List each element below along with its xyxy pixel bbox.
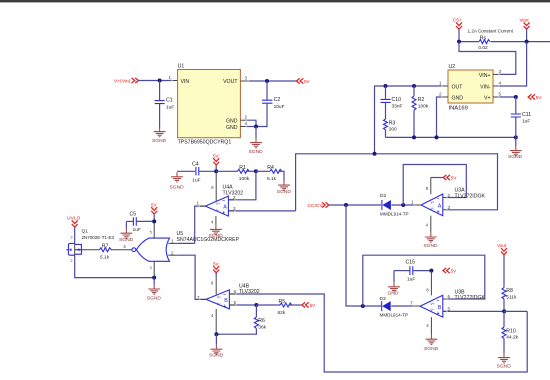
resistor R3 bbox=[384, 119, 398, 137]
svg-text:C4: C4 bbox=[192, 162, 199, 168]
resistor R4 bbox=[256, 165, 284, 182]
Q1 source wire to ground net bbox=[75, 256, 155, 278]
svg-text:1: 1 bbox=[169, 75, 172, 80]
node R1/R4 bbox=[254, 169, 258, 173]
svg-text:V+: V+ bbox=[484, 95, 491, 101]
svg-text:−: − bbox=[437, 196, 440, 202]
pin 1 output wire down to NOR bbox=[195, 206, 206, 243]
svg-text:SGND: SGND bbox=[497, 363, 512, 369]
ground SGND under U3A bbox=[423, 232, 438, 249]
svg-text:8: 8 bbox=[426, 186, 429, 191]
svg-text:8: 8 bbox=[211, 185, 214, 190]
svg-text:SGND: SGND bbox=[119, 237, 134, 243]
capacitor C15 bbox=[394, 260, 431, 283]
svg-text:3: 3 bbox=[245, 76, 248, 81]
svg-text:1: 1 bbox=[197, 201, 200, 206]
U1 body bbox=[178, 70, 241, 138]
svg-text:4: 4 bbox=[426, 222, 429, 227]
svg-text:0.02: 0.02 bbox=[478, 45, 488, 51]
svg-text:4: 4 bbox=[426, 323, 429, 328]
svg-text:V+: V+ bbox=[217, 296, 221, 300]
svg-text:SGND: SGND bbox=[152, 138, 167, 144]
node GND junction bbox=[254, 125, 258, 129]
op-amp U4B bbox=[206, 276, 229, 334]
svg-text:4: 4 bbox=[211, 220, 214, 225]
capacitor C2 bbox=[256, 81, 285, 127]
svg-text:100k: 100k bbox=[239, 176, 250, 182]
pin 3 stub bbox=[443, 209, 447, 211]
flag 5V above U4A bbox=[213, 154, 220, 172]
pin hotspot dots bbox=[167, 74, 500, 313]
svg-text:62k: 62k bbox=[278, 310, 286, 316]
svg-text:44.2k: 44.2k bbox=[506, 335, 518, 341]
wire node to right column bbox=[504, 310, 527, 312]
ground SGND under C11 bbox=[508, 146, 523, 160]
svg-text:U1: U1 bbox=[178, 64, 185, 70]
wire V+ to 5V flag bbox=[499, 96, 516, 98]
node C15/5V bbox=[429, 269, 433, 273]
svg-text:Vout: Vout bbox=[497, 243, 507, 248]
svg-text:Vout: Vout bbox=[520, 18, 530, 23]
svg-text:4: 4 bbox=[211, 313, 214, 318]
svg-text:U2: U2 bbox=[449, 64, 456, 70]
node GND bottom bbox=[435, 135, 439, 139]
resistor R6 bbox=[216, 305, 266, 334]
svg-text:−: − bbox=[222, 198, 225, 204]
svg-text:C11: C11 bbox=[522, 112, 531, 118]
svg-text:CC/CV: CC/CV bbox=[308, 203, 324, 209]
svg-text:5V: 5V bbox=[151, 202, 158, 207]
pin 1 VIN stub bbox=[172, 80, 178, 82]
svg-text:+: + bbox=[222, 211, 225, 217]
gate U5 NOR bbox=[123, 221, 169, 277]
capacitor C11 bbox=[511, 97, 531, 137]
svg-text:4: 4 bbox=[123, 244, 126, 249]
op-amp U3B bbox=[420, 271, 443, 335]
svg-text:6: 6 bbox=[448, 294, 451, 299]
svg-text:+: + bbox=[223, 304, 226, 310]
pin 2 wire to R1/R4 node bbox=[228, 171, 256, 200]
svg-text:V+: V+ bbox=[431, 201, 435, 205]
capacitor C10 bbox=[381, 86, 403, 119]
diode D3 bbox=[380, 296, 409, 317]
ground SGND under C1 bbox=[152, 127, 167, 144]
svg-text:1uF: 1uF bbox=[407, 277, 415, 283]
pin 6 wire to bottom net bbox=[229, 294, 527, 372]
svg-text:SGND: SGND bbox=[277, 189, 292, 195]
svg-text:10uF: 10uF bbox=[274, 104, 285, 110]
node Vin/C1 bbox=[158, 79, 162, 83]
svg-text:SN74AUC1G02MDCKREP: SN74AUC1G02MDCKREP bbox=[177, 237, 240, 243]
svg-text:V+(Vin): V+(Vin) bbox=[114, 79, 131, 85]
svg-text:SGND: SGND bbox=[170, 185, 185, 191]
node C11 bottom bbox=[514, 135, 518, 139]
pin 5 wire bbox=[443, 310, 504, 312]
svg-text:V+: V+ bbox=[431, 302, 435, 306]
transistor Q1 bbox=[66, 236, 82, 263]
wire Vin to U1 bbox=[138, 80, 172, 82]
svg-text:TPS7B6950QDCYRQ1: TPS7B6950QDCYRQ1 bbox=[178, 140, 232, 146]
svg-text:1: 1 bbox=[411, 200, 414, 205]
svg-text:1uF: 1uF bbox=[192, 177, 200, 183]
svg-text:VIN+: VIN+ bbox=[479, 73, 491, 79]
op-amp U3A bbox=[421, 178, 443, 233]
svg-text:SGND: SGND bbox=[423, 243, 438, 249]
svg-text:5V: 5V bbox=[213, 261, 220, 266]
svg-text:SGND: SGND bbox=[147, 295, 162, 301]
ground SGND under U4A bbox=[209, 225, 224, 239]
svg-text:5.1k: 5.1k bbox=[100, 255, 110, 261]
wire to sgnd bbox=[515, 137, 517, 146]
svg-text:R6: R6 bbox=[258, 318, 265, 324]
node long net / OUT column bbox=[373, 152, 377, 156]
node VOUT/C2 bbox=[265, 79, 269, 83]
node U4B V- / R6 bbox=[214, 332, 218, 336]
ground SGND under U1 bbox=[249, 138, 264, 155]
svg-text:8: 8 bbox=[211, 280, 214, 285]
pin 3 wire bbox=[228, 210, 295, 212]
capacitor C5 bbox=[126, 212, 154, 234]
svg-text:2: 2 bbox=[448, 193, 451, 198]
ground SGND at C5 bbox=[119, 221, 134, 243]
svg-text:36k: 36k bbox=[258, 324, 266, 330]
flag CS+ bbox=[453, 18, 462, 42]
svg-text:INA169: INA169 bbox=[449, 106, 468, 112]
svg-text:R10: R10 bbox=[506, 328, 516, 334]
svg-text:SGND: SGND bbox=[249, 149, 264, 155]
svg-text:SGND: SGND bbox=[424, 346, 439, 352]
wire long net U4A+ / R3 / U3A+ bbox=[296, 154, 498, 211]
node CS+ bbox=[457, 40, 461, 44]
svg-text:VIN-: VIN- bbox=[480, 84, 491, 90]
pin 1 stub bbox=[442, 85, 448, 87]
svg-text:VIN: VIN bbox=[181, 79, 190, 85]
flag 5V above C5 bbox=[151, 202, 158, 221]
svg-text:4: 4 bbox=[245, 121, 248, 126]
wire CS+ to VIN+ bbox=[459, 42, 516, 75]
svg-text:R3: R3 bbox=[389, 120, 396, 126]
svg-text:R2: R2 bbox=[418, 97, 425, 103]
node gate gnd bbox=[152, 276, 156, 280]
svg-text:D3: D3 bbox=[380, 296, 386, 302]
ground SGND under R4 bbox=[277, 181, 292, 195]
svg-text:4: 4 bbox=[499, 81, 502, 86]
svg-text:MMDL914-TP: MMDL914-TP bbox=[380, 312, 409, 317]
U2 body bbox=[448, 70, 493, 103]
svg-text:3: 3 bbox=[448, 205, 451, 210]
wire feedback loop U3B bbox=[363, 255, 485, 306]
pin 2 stub bbox=[443, 197, 447, 199]
flag 5V above U4B bbox=[213, 261, 220, 276]
wire OUT net bbox=[375, 86, 443, 154]
node R2 bottom bbox=[412, 135, 416, 139]
svg-text:V−: V− bbox=[431, 308, 435, 312]
svg-text:1uF: 1uF bbox=[166, 104, 174, 110]
node C4/5V bbox=[214, 169, 218, 173]
svg-text:8: 8 bbox=[426, 287, 429, 292]
svg-text:1uF: 1uF bbox=[522, 118, 530, 124]
svg-text:5.1k: 5.1k bbox=[267, 176, 277, 182]
svg-text:5V: 5V bbox=[310, 303, 317, 308]
svg-text:A: A bbox=[438, 204, 442, 210]
node CC/CV column bbox=[344, 203, 348, 207]
svg-text:2N7002E-T1-E3: 2N7002E-T1-E3 bbox=[82, 235, 115, 240]
svg-text:R5: R5 bbox=[279, 299, 286, 305]
svg-text:−: − bbox=[223, 292, 226, 298]
wire to sgnd bbox=[153, 278, 155, 285]
svg-text:GND: GND bbox=[226, 118, 238, 124]
svg-text:5V: 5V bbox=[213, 154, 220, 159]
resistor R5 bbox=[256, 299, 301, 316]
svg-text:5V: 5V bbox=[536, 95, 543, 100]
pin 5 wire bbox=[229, 304, 256, 306]
svg-text:5V: 5V bbox=[451, 269, 458, 274]
svg-text:V+: V+ bbox=[216, 202, 220, 206]
svg-text:3: 3 bbox=[71, 236, 73, 240]
pin 4 stub bbox=[493, 85, 499, 87]
svg-text:5: 5 bbox=[448, 307, 451, 312]
svg-text:2: 2 bbox=[71, 259, 73, 263]
node C5/5V bbox=[152, 219, 156, 223]
svg-text:UVLO: UVLO bbox=[67, 215, 81, 221]
node OUT/C10 bbox=[384, 84, 388, 88]
svg-text:SGND: SGND bbox=[508, 154, 523, 160]
pin 2 GND wire down bbox=[437, 97, 443, 137]
pin 2 GND stub + wire bbox=[240, 119, 246, 121]
svg-text:+: + bbox=[437, 311, 440, 317]
svg-text:R7: R7 bbox=[102, 243, 109, 249]
svg-text:1uF: 1uF bbox=[133, 227, 141, 233]
ground GND under C15 bbox=[388, 271, 400, 297]
wire to ground bbox=[255, 127, 257, 139]
wire feedback loop U3A bbox=[403, 165, 466, 206]
ground SGND left of C4 bbox=[170, 171, 196, 190]
svg-text:GND: GND bbox=[388, 291, 399, 297]
svg-text:5V: 5V bbox=[304, 79, 311, 84]
svg-text:7: 7 bbox=[410, 301, 413, 306]
op-amp U4A bbox=[205, 171, 228, 225]
pin 4 GND stub + wire bbox=[240, 126, 246, 128]
node R8/R10/U3B+ bbox=[502, 309, 506, 313]
svg-text:200: 200 bbox=[389, 127, 397, 133]
flag Vout bbox=[497, 243, 507, 287]
node U3B out / feedback bbox=[361, 304, 365, 308]
ground SGND under U5 bbox=[147, 284, 162, 301]
resistor Rs bbox=[459, 35, 550, 50]
pin 6 stub bbox=[443, 298, 447, 300]
wire Vout to VIN- bbox=[499, 42, 527, 86]
flag UVLO bbox=[67, 215, 81, 243]
svg-text:C10: C10 bbox=[392, 97, 402, 103]
svg-text:TLV272IDGK: TLV272IDGK bbox=[455, 193, 486, 199]
svg-text:C2: C2 bbox=[274, 97, 281, 103]
svg-text:100k: 100k bbox=[418, 103, 429, 109]
svg-text:Q1: Q1 bbox=[82, 229, 89, 235]
svg-text:5V: 5V bbox=[451, 176, 458, 181]
svg-text:R8: R8 bbox=[506, 288, 513, 294]
wire D2 to U3A out bbox=[391, 204, 415, 206]
svg-text:V−: V− bbox=[216, 208, 220, 212]
svg-text:MMDL914-TP: MMDL914-TP bbox=[380, 211, 409, 216]
node U3A out / feedback bbox=[401, 203, 405, 207]
flag Vout top bbox=[520, 18, 530, 42]
node Vout bbox=[525, 40, 529, 44]
resistor R1 bbox=[216, 165, 256, 182]
svg-text:SGND: SGND bbox=[209, 353, 224, 359]
svg-text:A: A bbox=[223, 205, 227, 211]
wire CC/CV node bbox=[329, 204, 381, 206]
svg-text:B: B bbox=[438, 305, 442, 311]
svg-text:+: + bbox=[437, 210, 440, 216]
pin 5 stub bbox=[493, 96, 499, 98]
wire CC/CV down to D3 row bbox=[346, 205, 381, 306]
flag 5V at C15 bbox=[443, 268, 457, 274]
svg-text:V−: V− bbox=[431, 207, 435, 211]
svg-text:511k: 511k bbox=[506, 294, 517, 300]
svg-text:B: B bbox=[224, 298, 228, 304]
svg-text:C15: C15 bbox=[406, 260, 416, 266]
svg-text:1: 1 bbox=[439, 81, 442, 86]
pin 3 VOUT stub bbox=[240, 80, 248, 82]
node OUT/R2 bbox=[412, 84, 416, 88]
svg-text:5: 5 bbox=[150, 230, 152, 234]
svg-text:R4: R4 bbox=[267, 165, 274, 171]
svg-text:3: 3 bbox=[499, 69, 502, 74]
capacitor C4 bbox=[192, 162, 216, 184]
svg-text:C1: C1 bbox=[166, 98, 173, 104]
svg-text:V−: V− bbox=[217, 302, 221, 306]
svg-text:5: 5 bbox=[499, 92, 502, 97]
svg-text:2: 2 bbox=[245, 115, 248, 120]
svg-text:CS+: CS+ bbox=[453, 18, 462, 23]
resistor R8 bbox=[502, 288, 517, 312]
flag 5V at R5 bbox=[302, 302, 316, 308]
wire VOUT to 5V bbox=[248, 80, 296, 82]
pin 2 stub bbox=[442, 96, 448, 98]
svg-text:C5: C5 bbox=[130, 212, 137, 218]
flag 5V at U3A bbox=[431, 175, 458, 181]
svg-text:R1: R1 bbox=[239, 165, 246, 171]
capacitor C1 bbox=[155, 81, 175, 128]
svg-text:3: 3 bbox=[150, 266, 152, 270]
node pin5/R5/R6 bbox=[254, 303, 258, 307]
ground SGND under U4B bbox=[209, 345, 224, 359]
diode D2 bbox=[380, 193, 409, 216]
wire to sgnd bbox=[215, 334, 217, 344]
svg-text:OUT: OUT bbox=[452, 84, 464, 90]
wire bottom gnd net bbox=[386, 136, 516, 138]
pin 1 stub + wire up bbox=[168, 242, 178, 244]
svg-text:VOUT: VOUT bbox=[223, 79, 238, 85]
pin 2 stub + wire down to U4B out bbox=[168, 254, 178, 256]
node V+ bbox=[514, 95, 518, 99]
svg-text:D2: D2 bbox=[380, 193, 386, 199]
flag 5V at VOUT bbox=[297, 78, 311, 84]
svg-text:1: 1 bbox=[171, 239, 174, 244]
svg-text:2: 2 bbox=[439, 92, 442, 97]
flag V+(Vin) bbox=[114, 78, 138, 85]
ground SGND under U3B bbox=[424, 335, 439, 352]
resistor R7 bbox=[83, 243, 132, 260]
top sheet border bbox=[0, 0, 550, 2]
pin 3 stub bbox=[493, 73, 499, 75]
flag CC/CV bbox=[308, 202, 329, 209]
svg-text:−: − bbox=[437, 298, 440, 304]
svg-text:33nF: 33nF bbox=[392, 103, 403, 109]
svg-text:TLV272IDGK: TLV272IDGK bbox=[455, 295, 486, 301]
resistor R2 bbox=[412, 86, 429, 137]
resistor R10 bbox=[502, 311, 519, 353]
svg-text:2: 2 bbox=[171, 250, 174, 255]
svg-text:GND: GND bbox=[226, 125, 238, 131]
svg-text:1.2A Constant Current: 1.2A Constant Current bbox=[468, 29, 514, 34]
flag 5V at V+ bbox=[528, 94, 542, 100]
wire D3 to U3B out bbox=[391, 305, 414, 307]
ground SGND under R10 bbox=[497, 353, 512, 369]
svg-text:GND: GND bbox=[452, 95, 464, 101]
